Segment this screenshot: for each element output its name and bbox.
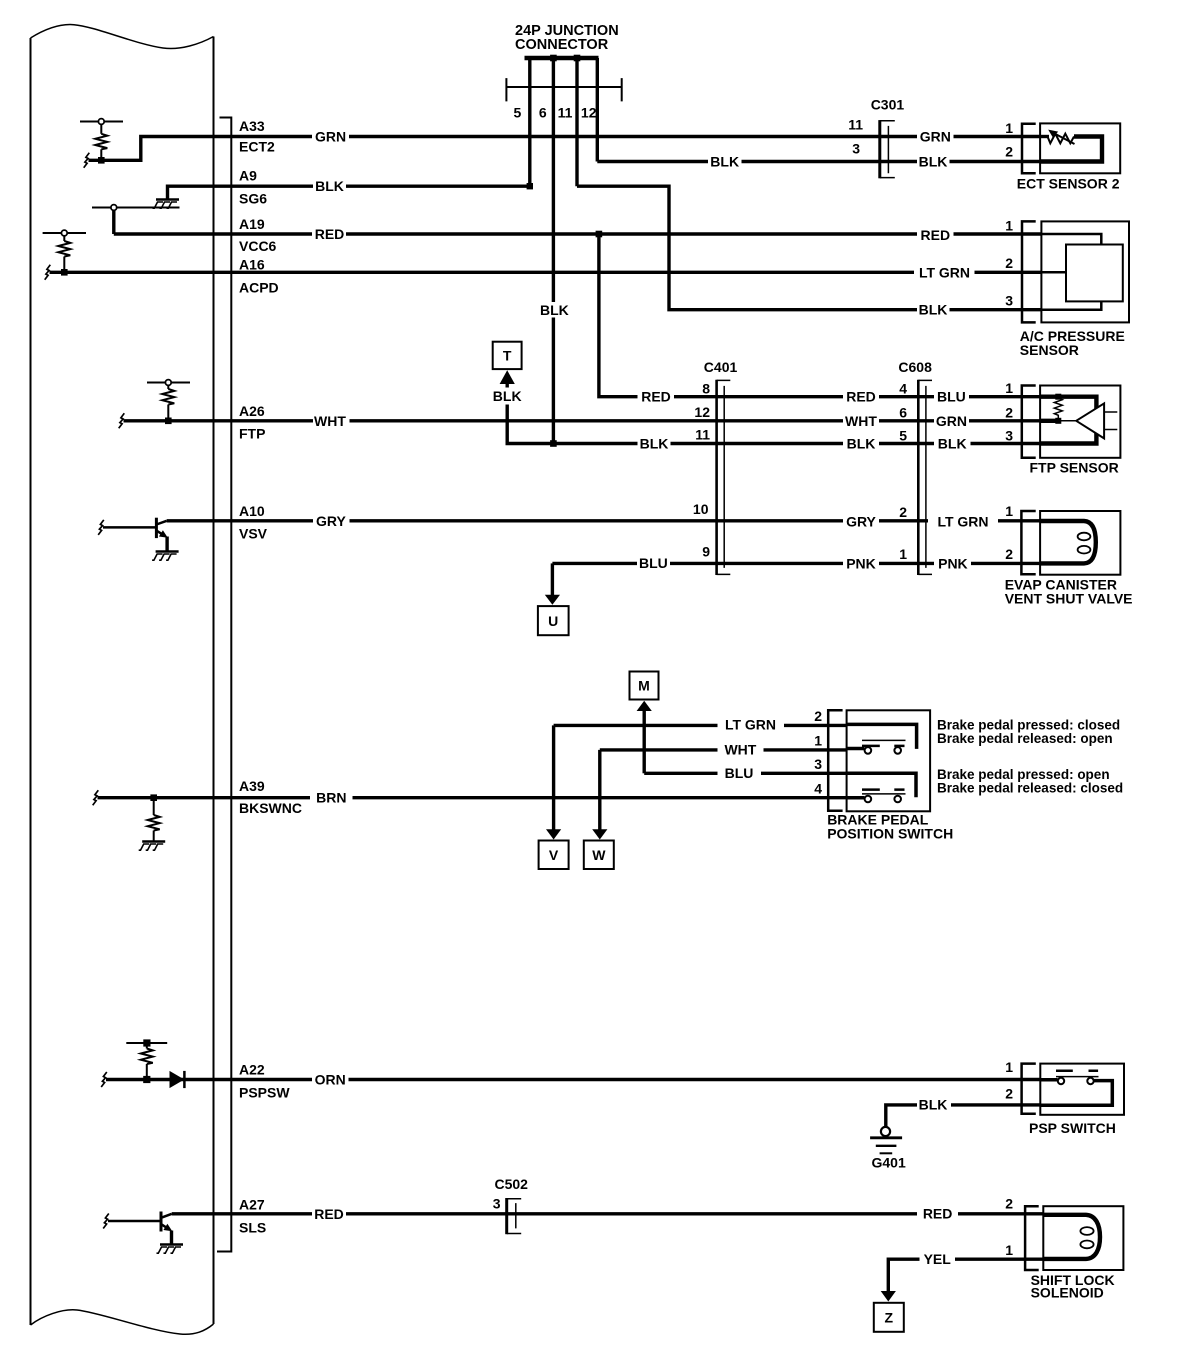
svg-text:A39: A39 [239, 778, 265, 794]
svg-text:BLK: BLK [919, 302, 948, 318]
svg-text:FTP: FTP [239, 426, 265, 442]
FTP sensor internal pin2 feed [1040, 419, 1058, 423]
PSPSW pull-up bar [126, 1042, 167, 1044]
FTP sensor box [1040, 386, 1120, 458]
svg-text:ECT2: ECT2 [239, 139, 275, 155]
diode D-PSPSW [170, 1071, 185, 1088]
svg-text:VSV: VSV [239, 526, 268, 542]
wire: BKSWNC run [98, 796, 311, 799]
svg-text:RED: RED [846, 389, 876, 405]
wire: LT GRN into EVAP valve pin 1 [998, 519, 1040, 522]
svg-text:U: U [548, 613, 558, 629]
ground G401 [870, 1127, 902, 1153]
node W box [584, 841, 614, 870]
ECT sensor 2 box [1040, 123, 1120, 173]
resistor R-ACPD [63, 236, 65, 241]
wire: WHT C401 to C608 pin 6 [879, 419, 934, 422]
node Z box [874, 1303, 904, 1332]
svg-text:1: 1 [1005, 380, 1013, 396]
svg-text:5: 5 [899, 428, 907, 444]
svg-text:A33: A33 [239, 118, 265, 134]
A/C pressure sensor box [1041, 221, 1129, 322]
open terminal circle [111, 205, 117, 211]
wire: GRY run from collector [167, 519, 313, 522]
svg-text:POSITION SWITCH: POSITION SWITCH [827, 826, 953, 842]
VCC6 supply bar [92, 207, 180, 209]
svg-text:A22: A22 [239, 1062, 265, 1078]
svg-text:BLK: BLK [540, 302, 569, 318]
svg-text:3: 3 [1005, 428, 1013, 444]
svg-text:1: 1 [899, 546, 907, 562]
continuation slash (BKSWNC) [93, 790, 99, 805]
svg-text:PNK: PNK [938, 556, 968, 572]
EVAP valve connector bracket [1021, 511, 1035, 574]
resistor inside FTP sensor [1054, 394, 1062, 424]
wire: RED to A/C pressure sensor pin 1 [346, 232, 917, 235]
continuation slash [119, 413, 125, 428]
brake pedal position switch box [847, 710, 931, 811]
wire: WHT into brake switch pin 1 [764, 748, 847, 751]
svg-text:BLU: BLU [725, 765, 754, 781]
continuation slash (VSV base) [98, 520, 104, 535]
junction dot at pin 5 corner [527, 183, 533, 189]
svg-text:4: 4 [814, 781, 822, 797]
junction dot at resistor foot [143, 1076, 150, 1083]
lower switch (open) inside brake switch [847, 773, 916, 802]
wire: PNK into EVAP valve pin 2 [971, 562, 1040, 565]
24P junction connector bus bar [525, 56, 599, 60]
wire: RED into A/C pressure sensor pin 1 [954, 232, 1042, 235]
wire: SG6 to ground and junction pin 5 [168, 186, 314, 198]
wire: WHT from W-branch to brake switch pin 1 [600, 748, 718, 751]
svg-text:12: 12 [581, 105, 597, 121]
svg-text:10: 10 [693, 501, 709, 517]
PSP switch connector bracket [1022, 1064, 1036, 1114]
wire: RED run from collector [172, 1212, 312, 1215]
svg-text:BLU: BLU [639, 555, 668, 571]
svg-text:A10: A10 [239, 503, 265, 519]
arrow to W [592, 829, 607, 839]
ACPD pull-up bar [43, 232, 86, 234]
wire: M branch riser (BLU) [643, 710, 646, 773]
wire: BLK C401 to C608 pin 5 [879, 442, 934, 445]
junction bar dot pin 6 [550, 55, 557, 62]
svg-text:ECT SENSOR 2: ECT SENSOR 2 [1017, 176, 1120, 192]
junction dot at resistor foot [61, 269, 68, 276]
arrow to M [637, 701, 652, 711]
A/C pressure sensor inner element [1041, 234, 1122, 310]
junction dot RED branch [596, 231, 603, 238]
ECT sensor 2 internal link [1040, 137, 1102, 162]
ground (SG6) [153, 200, 180, 209]
transistor Q-SLS [108, 1212, 172, 1232]
svg-text:2: 2 [1005, 144, 1013, 160]
svg-text:BLK: BLK [847, 436, 876, 452]
svg-text:ORN: ORN [315, 1072, 346, 1088]
thermistor inside ECT sensor 2 [1040, 130, 1074, 144]
wire: YEL elbow down to Z [888, 1259, 919, 1291]
svg-text:6: 6 [899, 405, 907, 421]
FTP pull-up bar [147, 382, 190, 384]
buffer amplifier triangle inside FTP sensor [1058, 403, 1117, 438]
wire: PNK C401 to C608 pin 1 [879, 562, 934, 565]
24P junction connector title [515, 23, 619, 53]
FTP sensor internal supply loop [1040, 397, 1096, 444]
svg-text:A19: A19 [239, 216, 265, 232]
wire: GRY C401 to C608 pin 2 [879, 519, 928, 522]
ECM connector bracket [217, 118, 231, 1252]
band bottom torn wave [31, 1310, 214, 1334]
open terminal circle [165, 380, 171, 386]
A/C pressure sensor connector bracket [1022, 221, 1036, 322]
svg-text:2: 2 [899, 504, 907, 520]
wire: LT GRN into A/C pressure sensor pin 2 [975, 271, 1042, 274]
shift lock solenoid connector bracket [1025, 1206, 1039, 1270]
svg-text:2: 2 [1005, 546, 1013, 562]
wire: ORN to PSP switch pin 1 [349, 1078, 1041, 1081]
wire: VSV emitter to ground [165, 537, 168, 551]
arrow to U [545, 595, 560, 605]
band top torn wave [31, 25, 214, 49]
svg-text:LT GRN: LT GRN [937, 514, 988, 530]
svg-text:G401: G401 [872, 1155, 906, 1171]
svg-text:3: 3 [814, 756, 822, 772]
wire: junction pin 11 elbow to A/C sensor pin 3 [577, 186, 917, 310]
PSP switch box [1040, 1064, 1124, 1115]
ground (VSV emitter) [152, 552, 179, 561]
svg-text:WHT: WHT [845, 413, 877, 429]
svg-text:BLK: BLK [493, 388, 522, 404]
brake switch connector bracket [828, 710, 842, 810]
svg-text:2: 2 [1005, 405, 1013, 421]
wire: BLU into FTP sensor pin 1 [969, 395, 1040, 398]
svg-text:8: 8 [702, 381, 710, 397]
wire: BLK to C301 pin 3 [742, 160, 918, 163]
ECM body outline (torn band) [31, 25, 214, 1335]
svg-text:9: 9 [702, 544, 710, 560]
svg-text:BLK: BLK [315, 178, 344, 194]
svg-text:1: 1 [1005, 1242, 1013, 1258]
FTP sensor connector bracket [1022, 386, 1036, 458]
wire: U branch drop [551, 563, 554, 595]
junction dot on bar [143, 1039, 150, 1046]
svg-text:3: 3 [852, 141, 860, 157]
node V box [539, 841, 569, 870]
wire: GRN into FTP sensor pin 2 [969, 419, 1040, 422]
ECT sensor connector bracket [1022, 124, 1036, 174]
wire: junction pin 11 vertical [575, 58, 578, 186]
svg-text:BLK: BLK [919, 154, 948, 170]
svg-text:PNK: PNK [846, 556, 876, 572]
junction dot pin6/T-branch [550, 440, 557, 447]
wire: stub below arrow [506, 383, 509, 388]
svg-text:GRY: GRY [316, 513, 346, 529]
wire: T branch down to BLK bus [507, 405, 553, 444]
svg-text:1: 1 [814, 733, 822, 749]
svg-text:Brake pedal released: closed: Brake pedal released: closed [937, 781, 1123, 796]
svg-text:Brake pedal released: open: Brake pedal released: open [937, 731, 1113, 746]
wire: junction pin 6 vertical (BLK) lower part [552, 318, 555, 444]
svg-text:4: 4 [899, 381, 907, 397]
wire: GRN to C301 pin 11 [349, 135, 917, 138]
connector C608 [918, 380, 932, 575]
wire: BRN to brake switch pin 4 [353, 796, 847, 799]
svg-text:BLK: BLK [919, 1097, 948, 1113]
wire: ACPD run [50, 271, 915, 274]
svg-text:BLK: BLK [640, 436, 669, 452]
wire: BLU from U-branch corner to C401 pin 9 [552, 562, 637, 565]
svg-text:WHT: WHT [724, 741, 756, 757]
svg-text:C502: C502 [495, 1176, 529, 1192]
svg-text:SLS: SLS [239, 1220, 266, 1236]
resistor R-FTP [167, 385, 169, 389]
svg-text:RED: RED [923, 1206, 953, 1222]
wire: BLK into C401 pin 11 [671, 442, 844, 445]
wire: RED into C401 pin 8 [674, 395, 843, 398]
resistor R-PSPSW [146, 1043, 148, 1049]
svg-text:SOLENOID: SOLENOID [1031, 1285, 1104, 1301]
open terminal circle [61, 230, 67, 236]
svg-text:GRY: GRY [846, 514, 876, 530]
svg-text:PSPSW: PSPSW [239, 1085, 290, 1101]
connector C301 [880, 120, 895, 178]
arrow to T [500, 370, 515, 384]
wire: FTP row run [124, 419, 314, 422]
shift lock solenoid box [1043, 1206, 1123, 1270]
svg-text:A26: A26 [239, 403, 265, 419]
svg-text:BLK: BLK [710, 154, 739, 170]
svg-text:C301: C301 [871, 97, 905, 113]
wire: junction pin 6 vertical (BLK) upper part [552, 58, 555, 302]
node T box [493, 342, 522, 369]
resistor R-ECT2 [100, 124, 102, 133]
wire: pin 12 elbow BLK to C301 pin 3 [597, 160, 708, 163]
svg-text:6: 6 [539, 105, 547, 121]
wire: BLK from PSP switch pin 2 to G401 [951, 1103, 1040, 1106]
svg-text:BLK: BLK [938, 436, 967, 452]
resistor pull-up bar (ECT2) [80, 121, 123, 123]
wire: GRY to C401 pin 10 [350, 519, 844, 522]
wire: band right edge [213, 37, 215, 1325]
svg-text:SG6: SG6 [239, 191, 267, 207]
wire: VCC6 internal run [114, 210, 312, 234]
svg-text:2: 2 [1005, 255, 1013, 271]
wire: LT GRN from V-branch to brake switch pin 2 [554, 724, 718, 727]
wire: BLK bus to C401 pin 11 [553, 442, 637, 445]
svg-text:5: 5 [514, 105, 522, 121]
wire: W branch drop (WHT) [598, 750, 601, 830]
svg-text:2: 2 [814, 708, 822, 724]
svg-text:SENSOR: SENSOR [1020, 342, 1079, 358]
svg-text:T: T [503, 348, 512, 364]
svg-text:A9: A9 [239, 168, 257, 184]
svg-text:VCC6: VCC6 [239, 238, 277, 254]
open terminal circle [98, 119, 104, 125]
wire: BLK into ECT sensor pin 2 [950, 160, 1041, 163]
junction dot at resistor foot [165, 418, 172, 425]
node U box [538, 606, 569, 635]
svg-text:VENT SHUT VALVE: VENT SHUT VALVE [1005, 591, 1133, 607]
junction bar dot pin 11 [574, 55, 581, 62]
junction connector shell bracket [506, 78, 621, 101]
upper switch (closed) inside brake switch [847, 724, 917, 753]
svg-text:LT GRN: LT GRN [919, 264, 970, 280]
svg-text:BLU: BLU [937, 389, 966, 405]
svg-text:GRN: GRN [920, 129, 951, 145]
svg-text:3: 3 [1005, 293, 1013, 309]
svg-text:GRN: GRN [315, 129, 346, 145]
transistor Q-VSV [103, 518, 168, 538]
svg-text:11: 11 [558, 105, 573, 121]
svg-text:W: W [592, 847, 606, 863]
wire: band left edge [30, 38, 32, 1325]
svg-text:YEL: YEL [924, 1251, 952, 1267]
wire: BLU from M-branch to brake switch pin 3 [644, 772, 717, 775]
svg-text:WHT: WHT [314, 413, 346, 429]
svg-text:RED: RED [315, 226, 345, 242]
wire: YEL from solenoid pin 1 [955, 1257, 1043, 1260]
continuation slash (PSPSW) [101, 1072, 107, 1087]
wire: LT GRN into brake switch pin 2 [784, 724, 847, 727]
connector C502 [507, 1198, 522, 1234]
arrow to V [546, 829, 561, 839]
continuation slash [84, 153, 90, 168]
svg-text:V: V [549, 847, 559, 863]
wire: RED through C502 [346, 1212, 917, 1215]
wire: junction pin 12 vertical [596, 58, 599, 162]
svg-text:LT GRN: LT GRN [725, 717, 776, 733]
svg-text:12: 12 [694, 404, 710, 420]
svg-text:2: 2 [1005, 1086, 1013, 1102]
svg-text:1: 1 [1005, 218, 1013, 234]
solenoid coil inside EVAP valve [1040, 521, 1096, 563]
svg-text:1: 1 [1005, 1059, 1013, 1075]
wire: BLU into brake switch pin 3 [761, 772, 847, 775]
svg-text:RED: RED [314, 1206, 344, 1222]
EVAP valve box [1040, 511, 1120, 575]
node M box [630, 672, 659, 700]
junction dot at resistor foot [98, 157, 105, 164]
svg-text:C401: C401 [704, 359, 738, 375]
wire: RED into shift lock solenoid pin 2 [958, 1212, 1043, 1215]
svg-text:RED: RED [921, 227, 951, 243]
wire: WHT to C401 pin 12 [350, 419, 844, 422]
wire: ECT2 internal run [89, 137, 313, 161]
wire: RED C401 to C608 pin 4 [879, 395, 934, 398]
wire: V branch drop (LT GRN) [552, 725, 555, 830]
continuation slash [45, 265, 51, 280]
ground (SLS emitter) [157, 1245, 184, 1254]
continuation slash (SLS base) [103, 1214, 109, 1229]
wire: SLS emitter to ground [170, 1231, 173, 1244]
wire: RED branch drop [599, 234, 638, 397]
svg-text:Z: Z [885, 1309, 894, 1325]
svg-text:1: 1 [1005, 120, 1013, 136]
wire: junction pin 5 vertical to SG6 row [528, 58, 531, 186]
wire: BLK into A/C sensor pin 3 [950, 308, 1042, 311]
svg-text:3: 3 [493, 1196, 501, 1212]
svg-text:2: 2 [1005, 1196, 1013, 1212]
junction dot (BKSWNC pulldown) [150, 794, 157, 801]
wire: GRN into ECT sensor pin 1 [954, 135, 1041, 138]
wire: PSPSW run [106, 1078, 312, 1081]
wire: BLU into C401 pin 9 [670, 562, 843, 565]
svg-text:M: M [638, 678, 650, 694]
svg-text:PSP SWITCH: PSP SWITCH [1029, 1120, 1116, 1136]
svg-text:BRN: BRN [316, 789, 346, 805]
svg-text:1: 1 [1005, 503, 1013, 519]
arrow to Z [881, 1291, 896, 1302]
svg-text:RED: RED [641, 389, 671, 405]
wire: BLK into FTP sensor pin 3 [971, 442, 1041, 445]
svg-text:C608: C608 [898, 359, 932, 375]
svg-text:11: 11 [695, 427, 710, 443]
svg-text:CONNECTOR: CONNECTOR [515, 37, 609, 53]
wire: BLK to junction pin 5 [346, 184, 530, 187]
solenoid coil inside shift lock solenoid [1043, 1215, 1100, 1259]
wire: BLK elbow down to G401 [886, 1105, 917, 1127]
svg-text:BKSWNC: BKSWNC [239, 800, 302, 816]
connector C401 [717, 380, 731, 575]
svg-text:A16: A16 [239, 257, 265, 273]
svg-text:FTP SENSOR: FTP SENSOR [1030, 460, 1119, 476]
svg-text:GRN: GRN [936, 413, 967, 429]
resistor R-BKSWNC [153, 798, 155, 815]
svg-text:11: 11 [848, 117, 863, 133]
ground (BKSWNC) [139, 842, 166, 851]
switch contacts inside PSP switch [1040, 1071, 1112, 1106]
svg-text:A27: A27 [239, 1197, 265, 1213]
svg-text:ACPD: ACPD [239, 280, 279, 296]
